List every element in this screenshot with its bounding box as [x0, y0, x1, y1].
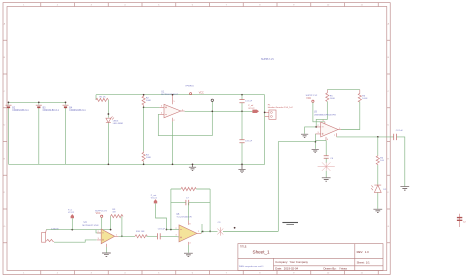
junction R9 on output net — [121, 235, 123, 237]
floating ground bar second — [286, 224, 294, 226]
svg-text:CR2032-BK-6-1: CR2032-BK-6-1 — [43, 110, 60, 112]
ground below C4 — [400, 187, 409, 190]
wire feedback top rail — [171, 188, 210, 190]
junction battery bus B4 — [65, 101, 67, 103]
junction C3 on GND bus — [241, 163, 243, 165]
wire C6 drop — [325, 141, 327, 156]
wire B3 return — [38, 102, 40, 164]
junction LED branch on GND bus — [108, 163, 110, 165]
netport VREF arrow — [252, 110, 259, 113]
svg-text:C1 1uF: C1 1uF — [245, 101, 253, 103]
junction U3 noninverting to mic line — [315, 141, 317, 143]
svg-text:4: 4 — [189, 242, 190, 244]
ground below C3 — [238, 164, 245, 172]
wire D2 to ground — [377, 192, 379, 208]
U5 pin numbers — [176, 228, 199, 237]
wire SUPPLY-V2 to U3 V+ — [313, 102, 325, 122]
junction R2 top on VCC rail — [143, 94, 145, 96]
power flag SUPPLY-V3 — [101, 215, 103, 217]
title block row divider 1 — [238, 257, 383, 259]
wire U1 output — [185, 110, 253, 112]
orphan capacitor C2 outside frame — [459, 214, 461, 227]
svg-text:MCP6002T-I/SN: MCP6002T-I/SN — [82, 225, 98, 227]
capacitor C3 — [239, 140, 244, 143]
wire U3 noninverting to bottom amp — [278, 142, 315, 232]
wire U4 V- to ground — [105, 247, 107, 253]
wire C3 to GND bus — [241, 143, 243, 165]
diode D2 — [371, 185, 381, 192]
U1 plus minus marks — [165, 106, 167, 114]
buzzer LS1 starburst — [318, 162, 335, 171]
title block outline — [238, 244, 383, 271]
U5 output pin stub — [197, 232, 201, 234]
svg-text:7: 7 — [334, 135, 335, 137]
jack tip prong — [45, 229, 48, 232]
op-amp U4 body — [101, 229, 115, 244]
svg-text:G: G — [4, 226, 6, 228]
netport P_out text — [151, 194, 158, 200]
wire feedback right leg — [209, 189, 211, 231]
U1 output pin stub — [181, 110, 185, 112]
P1 pin stubs — [265, 112, 269, 116]
svg-text:100K: 100K — [146, 157, 152, 159]
ground below buzzer — [322, 178, 331, 181]
title block row divider 2 — [274, 265, 384, 267]
junction U3 inverting node — [315, 126, 317, 128]
op-amp U5 body — [179, 225, 197, 242]
floating ground bar right of title area — [282, 222, 298, 224]
capacitor C4 — [394, 134, 397, 140]
svg-text:1/1: 1/1 — [366, 260, 370, 264]
wire VCC rail — [96, 94, 265, 96]
wire feedback left leg — [170, 189, 172, 230]
U1 pin numbers — [161, 101, 183, 122]
junction P1 pin1 — [264, 112, 266, 114]
svg-text:R10 10K: R10 10K — [136, 231, 145, 233]
U4 V- pin stub — [105, 244, 107, 247]
wire divider mid — [143, 106, 145, 151]
U3 plus minus marks — [322, 127, 324, 135]
svg-text:2: 2 — [98, 231, 99, 233]
wire U3 inverting to ground — [305, 127, 317, 134]
resistor R4 — [376, 155, 379, 165]
wire R4 drop — [377, 137, 379, 156]
junction feedback on inverting — [170, 229, 172, 231]
U3 V- pin stub — [325, 137, 327, 141]
svg-text:1: 1 — [198, 231, 199, 233]
capacitor C6 — [324, 156, 329, 158]
wire B4 return — [65, 102, 67, 164]
svg-text:8: 8 — [323, 120, 324, 122]
svg-text:1M: 1M — [112, 212, 115, 214]
junction R9 on input net — [110, 229, 112, 231]
svg-text:2: 2 — [318, 125, 319, 127]
svg-text:2019-02-04: 2019-02-04 — [284, 267, 299, 271]
wire C7 branch — [171, 202, 210, 204]
wire U5 output rise stub — [201, 224, 203, 232]
wire R1 to LED3 — [107, 100, 109, 118]
resistor R3 — [142, 151, 145, 162]
wire jack sleeve — [54, 240, 97, 242]
LED D3 — [106, 116, 114, 122]
svg-text:LED3: LED3 — [113, 120, 119, 122]
audio jack J1 body — [42, 233, 54, 243]
node floating dot — [234, 227, 236, 229]
capacitor C8 — [157, 233, 160, 239]
svg-text:C3 1uF: C3 1uF — [245, 141, 253, 143]
wire U5 inverting net — [167, 229, 180, 231]
svg-text:5: 5 — [174, 101, 175, 103]
U4 input pin stubs — [97, 233, 101, 240]
wire R3 to GND bus — [143, 162, 145, 164]
resistor R10 — [135, 235, 147, 238]
wire output to C9 — [203, 231, 218, 233]
wire U3 noninverting branch — [314, 134, 316, 149]
svg-text:#PWR01: #PWR01 — [185, 85, 195, 87]
U3 pin numbers — [318, 125, 341, 134]
resistor R6 — [358, 90, 361, 102]
netport P_in arrow — [71, 214, 74, 218]
junction R3 on GND bus — [143, 163, 145, 165]
wire R5 bottom to U3 inverting — [316, 102, 327, 127]
svg-text:VCC/2: VCC/2 — [68, 212, 75, 214]
wire GND bottom bus — [9, 95, 265, 165]
svg-text:Company:: Company: — [275, 260, 288, 264]
svg-text:Your Company: Your Company — [290, 260, 309, 264]
wire U5 output — [201, 232, 203, 234]
title block col divider left — [273, 258, 275, 270]
wire C1 bottom to output net — [241, 103, 243, 112]
wire R10 to C8 — [146, 235, 157, 237]
svg-text:Sheet_1: Sheet_1 — [253, 250, 271, 255]
svg-text:8: 8 — [189, 223, 190, 225]
P1 pin circles — [270, 111, 272, 113]
U3 output pin stub — [338, 129, 341, 131]
connector P1 body — [269, 110, 276, 119]
svg-text:VCC/2: VCC/2 — [248, 108, 255, 110]
svg-text:TITLE:: TITLE: — [240, 247, 247, 249]
wire U1 V- to GND bus — [172, 122, 174, 165]
U5 V+ pin stub — [187, 221, 189, 225]
border tick marks top — [3, 3, 390, 275]
wire VCC drop to R1 — [95, 95, 97, 100]
wire U3 out2 to C4 — [337, 136, 394, 138]
wire SUPPLY-V3 to U4 V+ — [101, 217, 103, 229]
svg-text:Yrissa: Yrissa — [339, 267, 347, 271]
junction P_out on inverting net — [166, 229, 168, 231]
svg-text:Drawn By:: Drawn By: — [324, 267, 337, 271]
wire P_out to U5 inverting — [156, 203, 167, 229]
node feedback dangling end — [211, 99, 213, 101]
ground below U4 — [102, 253, 111, 256]
wire C6 to buzzer — [325, 158, 327, 163]
U4 output pin stub — [115, 235, 119, 237]
ground at U3 inverting — [301, 134, 308, 137]
junction divider tap — [143, 106, 145, 108]
resistor R1 — [96, 98, 108, 101]
wire R9 right leg — [121, 217, 123, 237]
svg-text:Date:: Date: — [275, 267, 282, 271]
svg-text:CR2032-BK-6-1: CR2032-BK-6-1 — [69, 110, 86, 112]
junction C1 top on VCC rail — [241, 94, 243, 96]
wire P_in drop — [71, 218, 73, 229]
title block col divider right — [354, 244, 356, 271]
resistor R5 — [326, 90, 329, 102]
svg-text:C8 1uF: C8 1uF — [158, 228, 166, 230]
battery B2 — [6, 105, 12, 107]
svg-text:100K: 100K — [362, 98, 368, 100]
U1 input pin stubs — [160, 107, 164, 114]
svg-text:SUPPLY-V3: SUPPLY-V3 — [95, 210, 107, 212]
wire buzzer to ground — [325, 171, 327, 178]
wire U3 V- elbow — [315, 140, 326, 142]
junction output elbow — [202, 231, 204, 233]
svg-text:CR2032-BK-6-1: CR2032-BK-6-1 — [12, 110, 29, 112]
border grid labels — [4, 5, 390, 275]
wire C4 to ground — [397, 137, 405, 186]
svg-text:1.0: 1.0 — [365, 250, 369, 254]
wire tap to U1 input — [144, 106, 160, 108]
capacitor C7 — [186, 200, 189, 205]
capacitor C1 — [239, 100, 244, 103]
border outer rect — [3, 3, 390, 275]
wire R5/R6 top rail — [327, 89, 360, 91]
border inner rect — [7, 7, 387, 271]
svg-text:C4 1uF: C4 1uF — [396, 130, 404, 132]
U3 input pin stubs — [315, 127, 320, 134]
junction feedback on output — [209, 231, 211, 233]
TITLE BLOCK — [238, 244, 383, 271]
svg-text:3: 3 — [176, 235, 177, 237]
junction battery bus B2 — [8, 101, 10, 103]
junction R4 tap — [377, 136, 379, 138]
op-amp U1 body — [164, 104, 181, 118]
U3 V+ pin stub — [324, 122, 326, 125]
wire battery top bus — [9, 101, 66, 103]
wire U1 feedback loop — [158, 101, 212, 136]
wire B2 return — [8, 102, 10, 164]
svg-text:G: G — [388, 226, 390, 228]
wire jack tip to U4 inverting — [46, 229, 110, 231]
svg-text:LM358BIDDFR-NOPB: LM358BIDDFR-NOPB — [314, 114, 336, 116]
wire C9 to U3 riser — [223, 231, 278, 233]
wire R9 left leg — [110, 217, 112, 230]
junction C1/C3 on output net — [241, 110, 243, 112]
svg-text:100K: 100K — [330, 98, 336, 100]
ground below D2 — [373, 209, 382, 212]
svg-text:MCP6001T-E/OT: MCP6001T-E/OT — [161, 94, 178, 96]
U3 second output pin stub — [336, 133, 338, 137]
junction P_in tap — [71, 229, 73, 231]
svg-text:SUPPLY-V1: SUPPLY-V1 — [261, 58, 274, 61]
svg-text:REV:: REV: — [357, 250, 364, 254]
svg-text:4: 4 — [327, 139, 328, 141]
resistor R11 feedback — [181, 187, 196, 190]
U1 V- pin stub — [172, 118, 174, 122]
resistor R2 — [142, 95, 145, 107]
op-amp U3 body — [321, 122, 338, 137]
U5 pin8 pin4 numbers — [189, 223, 190, 244]
U4 pin numbers — [98, 231, 117, 240]
svg-text:VCC: VCC — [306, 98, 311, 100]
svg-text:3: 3 — [318, 132, 319, 134]
battery B4 — [63, 105, 69, 107]
U5 pin marks — [180, 230, 182, 239]
U5 V- pin stub — [187, 242, 189, 245]
svg-text:SUPPLY-V2: SUPPLY-V2 — [306, 95, 318, 97]
ground below U5 — [184, 253, 193, 256]
svg-text:3: 3 — [161, 106, 162, 108]
junction U1 V+ on VCC rail — [172, 94, 174, 96]
ground on GND bus mid — [189, 164, 196, 170]
wire C1 top — [241, 95, 243, 100]
junction feedback on output — [211, 110, 213, 112]
svg-text:VCC: VCC — [199, 92, 204, 95]
wire C8 to U5 — [160, 235, 179, 238]
wire into U4 inverting — [96, 230, 101, 233]
power flag SUPPLY-V2 — [312, 100, 314, 102]
U4 pin marks — [102, 233, 104, 241]
wire U5 V+ up — [187, 203, 189, 221]
svg-text:3: 3 — [98, 238, 99, 240]
resistor R9 feedback — [111, 215, 123, 218]
U1 V+ pin stub to VCC rail — [172, 95, 174, 105]
netport VREF text — [248, 104, 255, 110]
junction U1 V- on GND bus — [172, 163, 174, 165]
wire R4 to D2 — [377, 165, 379, 185]
svg-text:LED-3MM: LED-3MM — [113, 123, 123, 125]
netport P_out arrow — [154, 199, 157, 203]
wire output to C3 — [241, 111, 243, 139]
junction gnd stub on bus — [192, 163, 194, 165]
battery B3 — [36, 105, 42, 107]
svg-text:VCC/2: VCC/2 — [151, 198, 158, 200]
svg-text:100K: 100K — [146, 100, 152, 102]
junction battery bus B3 — [38, 101, 40, 103]
wire LED3 to GND bus — [107, 123, 109, 165]
svg-text:Sheet:: Sheet: — [357, 260, 365, 264]
wire U3 output to R6 — [341, 102, 360, 130]
capacitor C9 — [217, 227, 223, 235]
svg-text:4: 4 — [161, 113, 162, 115]
svg-text:R1 1K: R1 1K — [100, 96, 107, 98]
ground at U3 V- — [312, 149, 319, 152]
power flag VCC — [190, 93, 192, 95]
wire U5 V- to ground — [187, 245, 189, 253]
netport P_in text — [68, 210, 75, 215]
svg-text:VCC: VCC — [96, 213, 101, 215]
svg-text:2: 2 — [174, 120, 175, 122]
wire U4 output to R10 — [118, 235, 135, 237]
node LED3 anode — [108, 113, 110, 115]
svg-text:2: 2 — [176, 228, 177, 230]
